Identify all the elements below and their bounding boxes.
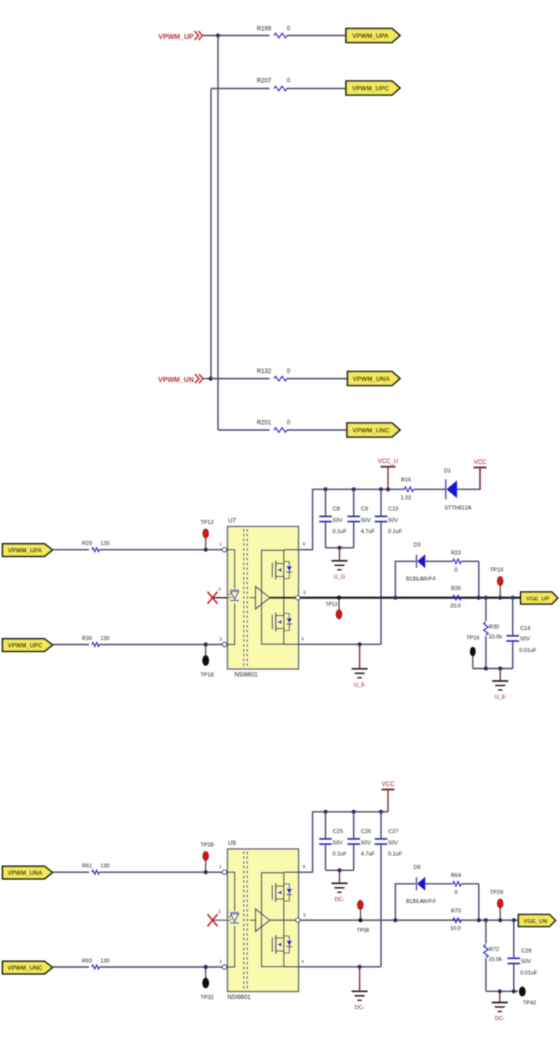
svg-text:0.1uF: 0.1uF [333,529,348,535]
svg-text:U7: U7 [228,519,236,525]
svg-text:C8: C8 [333,507,340,513]
svg-text:R93: R93 [82,959,92,965]
svg-text:DC-: DC- [355,1005,365,1011]
svg-text:D9: D9 [413,865,420,871]
svg-text:C26: C26 [361,829,371,835]
svg-text:VPWM_UPA: VPWM_UPA [8,548,43,554]
svg-text:DC-: DC- [335,897,345,903]
svg-text:50V: 50V [388,840,398,846]
svg-text:0.1uF: 0.1uF [388,852,403,858]
svg-text:VCC: VCC [382,782,395,788]
svg-text:120: 120 [100,541,109,547]
svg-text:TP19: TP19 [490,568,503,574]
svg-text:R207: R207 [257,79,272,85]
svg-text:C14: C14 [520,626,530,632]
svg-text:R199: R199 [257,27,272,33]
svg-text:B130LAW-P-F: B130LAW-P-F [406,899,436,905]
svg-text:TP16: TP16 [466,635,479,641]
svg-text:NSI6601: NSI6601 [227,995,251,1001]
svg-text:R70: R70 [451,909,461,915]
svg-text:2: 2 [218,909,221,914]
svg-text:50V: 50V [361,518,371,524]
svg-text:50V: 50V [333,840,343,846]
svg-text:R22: R22 [451,551,461,557]
svg-text:C9: C9 [361,507,368,513]
svg-text:TP42: TP42 [523,1001,536,1007]
svg-text:VPWM_UNA: VPWM_UNA [7,871,43,877]
svg-text:VCC: VCC [474,460,487,466]
svg-text:VGE_UN: VGE_UN [524,919,548,925]
svg-text:VGE_UP: VGE_UP [526,596,550,602]
svg-text:R16: R16 [401,478,411,484]
svg-text:NSI6601: NSI6601 [234,673,258,679]
svg-text:0: 0 [454,890,457,896]
svg-text:130: 130 [100,636,109,642]
svg-text:R36: R36 [82,636,92,642]
svg-text:0.1uF: 0.1uF [333,852,348,858]
svg-text:U_G: U_G [334,574,346,580]
svg-text:VCC_U: VCC_U [378,459,398,465]
svg-text:R30: R30 [489,625,499,631]
svg-text:3: 3 [219,637,222,642]
svg-text:4.7uF: 4.7uF [361,529,376,535]
svg-text:D3: D3 [413,543,420,549]
svg-text:50V: 50V [520,636,530,642]
svg-text:1: 1 [219,864,222,869]
svg-text:VPWM_UPC: VPWM_UPC [352,85,389,92]
svg-text:10.0k: 10.0k [489,957,503,963]
svg-text:VPWM_UPC: VPWM_UPC [8,643,43,649]
svg-text:R29: R29 [82,541,92,547]
svg-text:C27: C27 [388,829,398,835]
svg-text:0.01uF: 0.01uF [520,970,538,976]
svg-text:20.0: 20.0 [450,604,461,610]
svg-text:C28: C28 [521,949,531,955]
svg-text:R64: R64 [451,873,461,879]
svg-text:R61: R61 [82,864,92,870]
svg-text:VPWM_UP: VPWM_UP [158,34,194,41]
svg-text:VPWM_UNA: VPWM_UNA [353,376,391,383]
svg-text:1: 1 [219,542,222,547]
svg-text:4: 4 [301,959,304,964]
svg-text:TP38: TP38 [357,928,370,934]
svg-text:TP28: TP28 [200,843,213,849]
svg-text:50V: 50V [521,959,531,965]
svg-text:10.0k: 10.0k [489,635,503,641]
svg-text:4.7uF: 4.7uF [361,852,376,858]
svg-text:50V: 50V [361,840,371,846]
svg-text:U_E: U_E [354,682,365,688]
svg-text:R72: R72 [489,947,499,953]
svg-text:10.0: 10.0 [450,926,461,932]
svg-text:D1: D1 [444,469,451,475]
svg-text:R201: R201 [257,421,272,427]
svg-text:TP12: TP12 [200,520,213,526]
svg-text:0.1uF: 0.1uF [388,529,403,535]
svg-text:U_E: U_E [495,695,506,701]
svg-text:130: 130 [100,959,109,965]
svg-text:5: 5 [303,913,306,918]
svg-text:TP18: TP18 [200,673,213,679]
svg-text:TP32: TP32 [200,995,213,1001]
svg-text:R132: R132 [257,369,272,375]
svg-text:TP13: TP13 [326,602,338,608]
svg-text:VPWM_UNC: VPWM_UNC [352,427,390,434]
svg-text:B130LAW-P-F: B130LAW-P-F [406,577,436,583]
svg-text:VPWM_UNC: VPWM_UNC [7,966,43,972]
svg-text:4: 4 [301,637,304,642]
svg-text:U9: U9 [228,841,236,847]
svg-text:0: 0 [454,568,457,574]
svg-text:VPWM_UPA: VPWM_UPA [352,33,389,40]
svg-text:1.02: 1.02 [401,496,412,502]
svg-text:C25: C25 [333,829,343,835]
svg-text:50V: 50V [333,518,343,524]
svg-text:DC-: DC- [495,1016,505,1022]
svg-text:2: 2 [218,587,221,592]
svg-text:6: 6 [303,864,306,869]
svg-text:R26: R26 [451,586,461,592]
svg-text:TP29: TP29 [490,890,503,896]
svg-text:130: 130 [100,864,109,870]
svg-text:6: 6 [303,542,306,547]
svg-text:50V: 50V [388,518,398,524]
svg-text:STTH812A: STTH812A [444,506,472,512]
svg-text:0.01uF: 0.01uF [519,648,537,654]
svg-text:VPWM_UN: VPWM_UN [158,377,194,384]
svg-text:3: 3 [219,959,222,964]
svg-text:5: 5 [303,590,306,595]
svg-text:C10: C10 [388,507,398,513]
